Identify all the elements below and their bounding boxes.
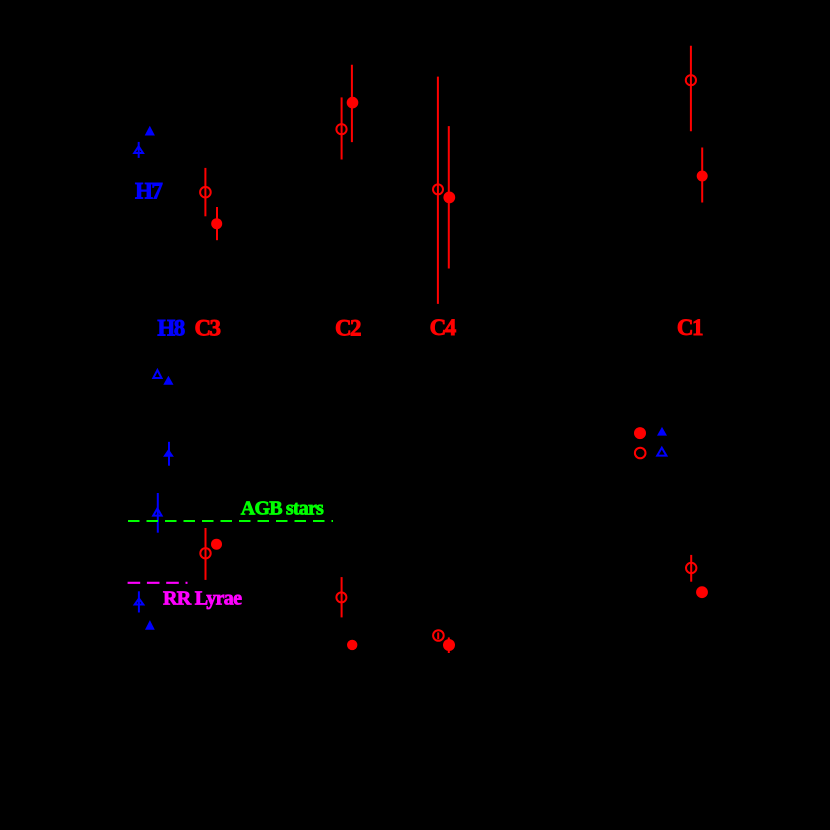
svg-text:H8: H8 (157, 316, 184, 341)
svg-text:H7: H7 (135, 179, 162, 204)
svg-text:AGB stars: AGB stars (241, 497, 324, 519)
svg-text:RR Lyrae: RR Lyrae (163, 588, 242, 610)
svg-text:C1: C1 (677, 315, 703, 340)
svg-text:C2: C2 (335, 316, 361, 341)
svg-text:C3: C3 (194, 316, 220, 341)
svg-text:C4: C4 (430, 315, 457, 340)
